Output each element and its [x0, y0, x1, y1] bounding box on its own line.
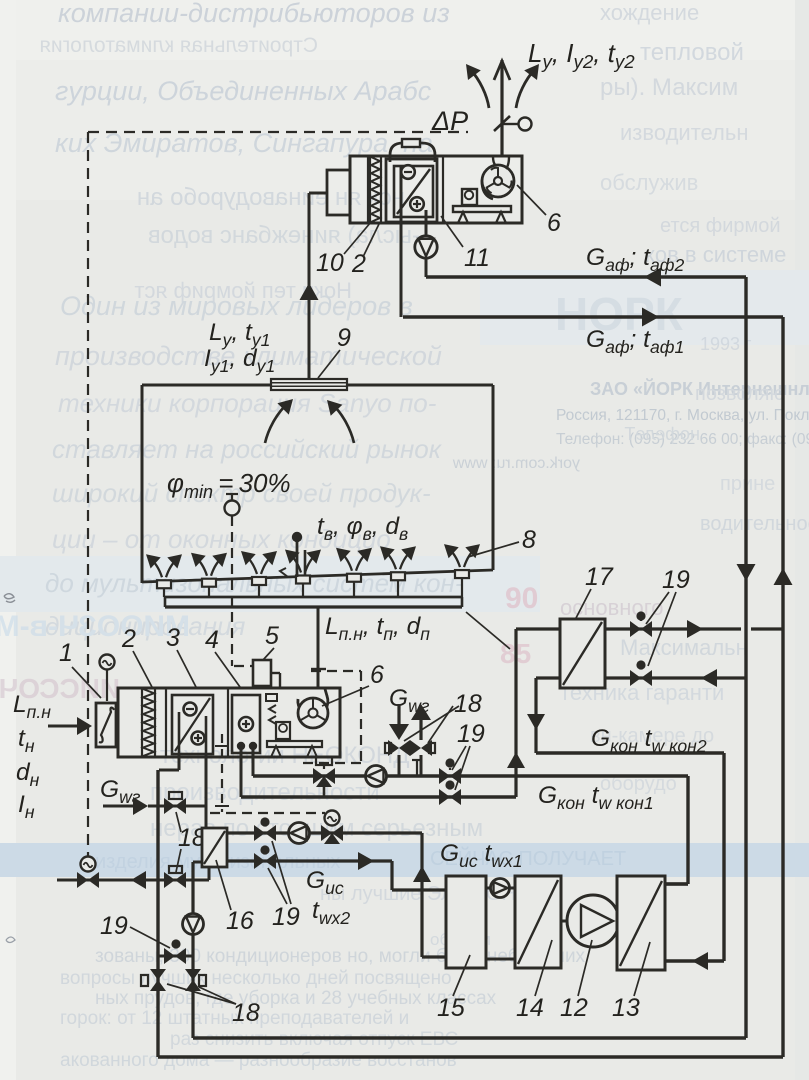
valve 18 left lower [164, 872, 186, 888]
control dashed line capillary sensor at coil 4 [221, 734, 223, 812]
leader 2 [133, 651, 152, 687]
svg-text:10: 10 [316, 249, 344, 277]
exhaust air outlet duct [500, 60, 503, 156]
svg-text:тепловой: тепловой [640, 39, 744, 66]
svg-text:компании-дистрибьюторов из: компании-дистрибьюторов из [58, 0, 450, 28]
pipe Gaf taf1 [403, 315, 783, 318]
leader 3 [177, 650, 196, 687]
svg-text:5: 5 [265, 622, 279, 650]
HX16 left-bottom to pump riser [193, 861, 202, 864]
damper tick on riser [311, 668, 326, 670]
coil pipe left (to Gaf1) [400, 167, 403, 317]
section divider after filter [165, 688, 167, 757]
svg-text:нок ян еинаводуробо ан: нок ян еинаводуробо ан [137, 184, 405, 211]
exhaust curved arrow right [516, 69, 535, 108]
svg-text:ставляет на российский рынок: ставляет на российский рынок [52, 434, 443, 464]
HX17 bottom pipe [605, 676, 746, 679]
leaders 19 gis [268, 868, 287, 904]
svg-text:19: 19 [457, 720, 485, 748]
svg-text:Строительная климатология: Строительная климатология [39, 34, 318, 57]
floor diffuser 7 [455, 570, 469, 578]
curved arrow into grille right [332, 404, 354, 443]
leader 2 top [363, 224, 379, 257]
leader 5 [263, 648, 274, 660]
outer bottom return pipe [158, 1055, 783, 1058]
bottom pipe 15-14 [486, 958, 515, 961]
condenser bottom connection [665, 959, 724, 962]
valve 18b upper [410, 740, 432, 756]
floor diffuser 3 [252, 577, 266, 585]
dashed enclosure around supply fan section [311, 670, 361, 672]
leader duct label [466, 612, 510, 649]
drain pipe with valve 18 [57, 879, 209, 882]
valve 18 on pump riser [185, 969, 201, 991]
coil 4 pipe dots [237, 742, 245, 750]
fan motor [462, 189, 477, 205]
svg-text:1: 1 [59, 639, 73, 667]
svg-text:york.com.ru; www: york.com.ru; www [452, 455, 580, 472]
Gwg left pipe [148, 805, 206, 808]
valve 19 gis lower [254, 853, 276, 869]
coil 3 diagonal [175, 698, 210, 751]
pipe Gkon kon1 [253, 774, 688, 777]
leader 19 left [130, 927, 170, 948]
svg-text:6: 6 [547, 209, 561, 237]
exhaust outlet arrowhead [494, 61, 510, 80]
leader 16 [216, 860, 231, 910]
humidity sensor in room [226, 493, 238, 495]
HX16 heat exchanger [202, 828, 227, 867]
pump 16 circuit [183, 914, 204, 935]
bridge pipe with valve 19 [158, 955, 193, 958]
svg-text:НОРК: НОРК [555, 288, 684, 340]
three-way valve with sensor gis [321, 825, 343, 841]
leaders 18 upper [428, 706, 453, 743]
svg-text:Россия, 121170, г. Москва, ул.: Россия, 121170, г. Москва, ул. Поклонная… [556, 407, 809, 424]
fan foot left [458, 212, 468, 223]
svg-text:4: 4 [205, 626, 219, 654]
svg-text:2: 2 [121, 625, 136, 653]
top unit casing [350, 156, 522, 223]
pipe Gkon kon2 [536, 751, 724, 754]
room sensor stand at diffuser 4 [296, 542, 299, 577]
top unit roof cap [390, 143, 435, 162]
svg-text:МИООЗЧ-в-МОЛНЕЖНИ: МИООЗЧ-в-МОЛНЕЖНИ [0, 610, 190, 643]
svg-text:19: 19 [100, 912, 128, 940]
fan 6 outlet to duct [493, 157, 509, 169]
exhaust duct damper [494, 116, 510, 131]
pump between 15 and 14 [486, 887, 515, 890]
top unit mixing section 10 divider [367, 156, 369, 223]
leader 8 [468, 542, 519, 557]
Gwg left arrow [103, 805, 140, 808]
svg-text:13: 13 [612, 994, 640, 1022]
pump gis [289, 823, 310, 844]
svg-text:-ысла) яинежбанс водов: -ысла) яинежбанс водов [148, 222, 420, 249]
pipe Gis upper [227, 831, 422, 834]
leader 17 [576, 589, 591, 618]
Gwg down arrow [397, 704, 400, 726]
top unit coil plus port [410, 197, 424, 211]
pump on kon1 [366, 766, 387, 787]
svg-text:17: 17 [585, 563, 614, 591]
svg-text:11: 11 [464, 244, 490, 272]
leaders 18 bottom [167, 984, 236, 1004]
storage tank 15 [446, 876, 486, 968]
kon1 riser corner down to condenser [686, 776, 689, 884]
HX17 heat exchanger [560, 619, 605, 688]
fan base plate [453, 206, 511, 212]
svg-text:9: 9 [337, 324, 351, 352]
pipe lower (to kon1 riser) [241, 795, 516, 798]
leader 11 [441, 216, 463, 247]
control dashed vertical line (left) [87, 132, 89, 856]
right vertical pipe (condenser supply) [744, 277, 747, 1038]
coil 3 pipes [178, 712, 181, 753]
svg-text:гурции, Объединенных Арабс: гурции, Объединенных Арабс [55, 76, 432, 106]
svg-text:15: 15 [437, 994, 465, 1022]
fan 6 scroll [482, 167, 493, 199]
coil4 left pipe down [240, 746, 243, 797]
coil 3 plus [192, 732, 205, 745]
svg-text:8: 8 [522, 526, 536, 554]
small sensor tap on kon1 [416, 760, 418, 775]
right outer vertical pipe [781, 317, 784, 1057]
floor diffuser 6 [391, 572, 405, 580]
supply fan 6 scroll [298, 689, 328, 716]
svg-text:14: 14 [516, 994, 544, 1022]
leader 9 [318, 350, 340, 378]
gis lower corner into evaporator tank [390, 861, 393, 890]
exhaust curved arrow left [470, 69, 489, 108]
leader 10 [344, 222, 371, 254]
svg-text:ΔP: ΔP [431, 106, 468, 136]
valve 18 on left riser [150, 969, 166, 991]
svg-text:19: 19 [272, 903, 300, 931]
supply AHU casing [118, 688, 340, 757]
svg-text:изводительн: изводительн [620, 120, 748, 145]
coil3 right pipe down to HX16 [205, 753, 208, 828]
svg-text:водительност: водительност [700, 513, 809, 535]
control dashed line from pressure sensor to damper [88, 131, 468, 133]
coil3 left pipe to left riser [178, 753, 181, 770]
riser to HX17 [514, 629, 517, 797]
compressor 12 [561, 920, 569, 923]
svg-text:акованного дома — разнообразие: акованного дома — разнообразие восстанов [60, 1050, 457, 1071]
svg-text:3: 3 [166, 624, 180, 652]
HX17 top outlet pipe [605, 627, 741, 630]
supply duct riser [317, 607, 320, 688]
leaders 18 left [176, 812, 181, 832]
temperature sensor on AHU inlet [100, 655, 115, 670]
svg-text:6: 6 [370, 661, 384, 689]
curved arrow into grille left [265, 403, 288, 443]
cooler coil 4 box [232, 695, 260, 753]
floor diffuser 4 [296, 575, 310, 583]
floor diffuser 5 [347, 574, 361, 582]
leader 6 supply [322, 686, 369, 706]
leaders 19 right [646, 592, 669, 624]
valve 18 left upper [164, 798, 186, 814]
valve 18a upper [388, 740, 410, 756]
HX16 bottom connection [208, 867, 211, 880]
control dashed line humidity sensor to element 5 [231, 516, 233, 666]
svg-text:Один из мировых лидеров в: Один из мировых лидеров в [60, 291, 413, 321]
pump 11 [415, 236, 437, 258]
control dashed line to mixing valve sensor [210, 812, 325, 814]
svg-text:вопросы лучших несколько дней: вопросы лучших несколько дней посвящено [60, 968, 452, 989]
valve 19b kon [439, 789, 461, 805]
section divider [227, 688, 229, 757]
kon2 downcomer from HX17 [534, 678, 537, 753]
valve 19 HX17 bottom [630, 670, 652, 686]
valve 19 bridge [164, 948, 186, 964]
heater coil 3 box [172, 695, 213, 754]
supply fan motor [276, 722, 290, 739]
drain sensor valve [77, 872, 99, 888]
svg-text:12: 12 [560, 994, 588, 1022]
svg-text:хождение: хождение [600, 0, 699, 25]
floor diffuser 1 [157, 580, 171, 588]
coil4 right pipe down [252, 746, 255, 776]
svg-text:обслужив: обслужив [600, 170, 698, 195]
condenser top connection [665, 882, 688, 885]
svg-text:ется фирмой: ется фирмой [660, 215, 781, 237]
coil 3 minus [184, 703, 197, 716]
top unit filter 2 [369, 156, 371, 223]
supply fan impeller [309, 709, 318, 718]
top unit inlet box [327, 170, 350, 215]
svg-text:позволяю: позволяю [695, 383, 784, 405]
gis return riser [420, 833, 423, 957]
valve 19 gis upper [254, 825, 276, 841]
svg-text:18: 18 [454, 690, 482, 718]
leader 1 [72, 667, 101, 698]
room left wall [141, 385, 144, 583]
svg-text:1993 г: 1993 г [700, 334, 752, 354]
outdoor air arrow Lpn [48, 725, 84, 728]
top unit cooler coil outer box [386, 159, 437, 222]
svg-text:основного: основного [560, 595, 663, 620]
svg-text:техники корпорация Sanyo по-: техники корпорация Sanyo по- [58, 388, 437, 418]
svg-text:16: 16 [226, 907, 254, 935]
top unit fan section divider [442, 156, 444, 223]
leader 6 top [517, 185, 546, 215]
arrow up on exhaust duct [300, 283, 319, 300]
evaporator 14 [515, 876, 561, 968]
valve 19a kon [439, 768, 461, 784]
three-way valve with actuator on kon1 [313, 768, 335, 784]
top unit coil diagonal [397, 169, 430, 214]
pipe Gis lower [227, 859, 392, 862]
leader 13 [634, 942, 650, 996]
left riser pipe [156, 770, 159, 1057]
leader 15 [453, 955, 470, 996]
exhaust duct from room to top unit [308, 193, 311, 378]
fan 6 impeller [494, 177, 502, 185]
leader 12 [578, 940, 592, 996]
svg-text:Максимальн: Максимальн [620, 635, 748, 660]
element 5 box [253, 660, 271, 686]
outdoor air damper 1 [96, 703, 116, 747]
room ceiling [142, 384, 270, 387]
supply filter 2 [141, 688, 143, 757]
supply fan base [267, 741, 322, 747]
room right wall [492, 385, 495, 570]
pipe Gaf taf2 [426, 275, 746, 278]
top unit cooler coil inner box [394, 166, 433, 217]
floor diffuser 2 [202, 579, 216, 587]
coil 4 plus [239, 717, 253, 731]
svg-text:90: 90 [505, 582, 538, 615]
valve 19 HX17 top [630, 621, 652, 637]
supply air plenum duct [165, 596, 462, 599]
Gwg up arrow [419, 719, 422, 740]
leader 4 [215, 652, 240, 687]
condenser 13 [617, 876, 665, 970]
top unit coil minus port [401, 165, 415, 179]
leaders 19 upper [452, 746, 466, 770]
fan foot right [496, 212, 506, 223]
leader 14 [535, 940, 552, 996]
svg-text:нофелеТ: нофелеТ [624, 424, 700, 444]
room floor (raised) [142, 570, 493, 582]
coil pipe right (to pump 11) [425, 210, 428, 237]
supply fan foot right [307, 746, 317, 757]
kon2 bottom return [193, 1036, 746, 1039]
svg-text:19: 19 [662, 566, 690, 594]
supply fan foot left [271, 746, 281, 757]
supply fan isolators [266, 694, 277, 701]
svg-text:ры). Максим: ры). Максим [600, 74, 738, 101]
exhaust grille 9 [271, 379, 347, 390]
